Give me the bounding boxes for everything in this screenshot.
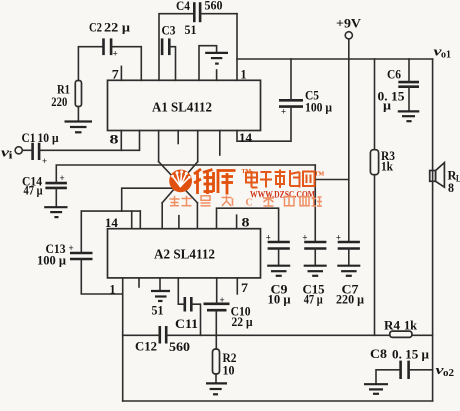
capacitor C15 47u [302,232,326,306]
speaker RL 8ohm [430,163,460,195]
pin 7 stub A2 [237,278,248,295]
watermark brand glyphs [194,169,236,195]
ground under C14 [44,207,67,217]
svg-text:220: 220 [51,95,67,109]
wire A2 pin1 down to bottom loop [110,278,123,401]
wire C6 top to rail [408,59,410,82]
svg-text:A1 SL4112: A1 SL4112 [152,100,212,115]
pin 7 stub A1 [112,66,122,81]
svg-text:+: + [113,48,118,58]
wire A1 output pin stub left [158,131,160,162]
wire R4 right to bus [412,334,433,336]
svg-text:47 μ: 47 μ [304,293,323,307]
wire C4 right to pin1 line [200,13,237,15]
watermark site name glyphs [246,170,315,189]
wire R3 top to rail [374,59,376,150]
wire crossover diagonal B [162,162,198,203]
svg-text:100 μ: 100 μ [37,254,66,268]
svg-text:μ: μ [383,99,391,113]
wire C8 left to ground [376,370,400,383]
svg-text:+: + [42,156,47,166]
capacitor C1 10u [22,131,59,166]
wire C5 top to rail [290,59,292,100]
svg-text:+: + [60,173,65,183]
resistor R2 10 [213,349,237,378]
svg-text:8: 8 [448,181,454,195]
wire R1 bottom [77,107,79,121]
svg-text:+: + [336,232,341,242]
capacitor C3 51 [162,23,197,55]
wire C14 bottom [55,188,57,207]
wire A1 output pin stub right [197,131,199,162]
wire A1 bottom pin stub x220 [219,131,221,156]
svg-text:o1: o1 [441,50,451,61]
resistor R1 [51,81,81,109]
wire bottom feedback loop [123,400,433,402]
ground near C4 [205,53,228,64]
wire C7 bottom [348,249,350,265]
wire +9V rail [237,58,433,60]
svg-text:1k: 1k [404,319,417,333]
pin 14 legs A2 [105,211,140,230]
svg-text:8: 8 [110,132,119,146]
svg-text:220 μ: 220 μ [336,293,364,307]
wire +9V down to C7 [348,39,350,242]
wire C4 left loop [159,14,194,81]
wire A1 bottom center pin stub [177,131,179,144]
wire pin14 bus A2 [81,210,140,212]
wire main feedback run left [123,334,160,336]
input terminal vi [1,145,22,162]
svg-text:C1: C1 [22,131,36,145]
ground under C8 left [364,384,388,394]
wire C5 bottom to pin 14 A1 [237,107,291,141]
svg-text:C2: C2 [89,20,102,34]
pin 1 wire A1 [237,14,247,82]
svg-text:7: 7 [112,68,119,82]
A2 bottom small stub [138,278,140,287]
A2 ground stub [159,278,161,290]
wire C10 bottom through main wire to R2 [215,311,217,350]
ground with 51 label [151,291,170,318]
svg-text:+: + [69,243,74,253]
capacitor C4 560 [176,0,223,22]
capacitor C12 560 [135,326,190,354]
svg-text:C12: C12 [135,340,157,354]
wire C13 bottom to A2 pin1 [81,259,122,294]
wire C13 top [80,211,82,253]
A2 top center stub [178,216,180,229]
ground under C9 [267,266,290,276]
pin 8 stub A1 [110,131,122,151]
svg-text:51: 51 [185,23,197,37]
svg-text:1: 1 [241,68,247,82]
resistor R3 1k [370,149,395,175]
ground under C7 [337,266,360,276]
wire right bus vo1 to bottom [432,59,434,401]
wire vi to C1 [23,149,33,151]
svg-text:7: 7 [241,281,248,295]
wire C10 top to A2 [216,278,218,304]
wire jumper C15 line to +9V line [315,179,349,181]
pin stub A1 top x216 [216,70,218,80]
svg-text:R4: R4 [384,319,401,333]
wire C8 right to bus [409,369,433,371]
capacitor C11 [175,297,198,331]
watermark slogan row [170,196,232,206]
wire C1 to A1 pin8 [39,131,139,151]
node vo2 label [436,362,455,379]
wire C15 bottom [314,249,316,265]
wire crossover leg into A2 left [161,203,163,229]
wire C2 right to A1 top pin [112,47,142,81]
svg-text:10 μ: 10 μ [268,293,291,307]
svg-text:1k: 1k [381,160,393,174]
wire C6 bottom [408,87,410,111]
svg-text:C: C [246,198,253,209]
op-amp U1 A1 SL4112 box [108,80,261,130]
watermark logo circle [169,170,192,193]
ground under C6 [398,111,420,121]
svg-text:100 μ: 100 μ [305,101,332,115]
svg-text:TM: TM [315,172,325,178]
wire ground branch on A1 top [199,46,217,81]
ground under C15 [304,266,327,276]
capacitor C5 100u [279,89,332,117]
svg-text:0. 15 μ: 0. 15 μ [392,348,429,362]
svg-text:560: 560 [169,340,190,354]
wire crossover diagonal A [159,162,198,203]
svg-text:C11: C11 [175,317,198,331]
wire C14 top to long rail wire [56,165,315,183]
wire main feedback run right [167,334,390,336]
svg-text:14: 14 [105,216,119,230]
op-amp U2 A2 SL4112 box [108,229,261,278]
svg-text:C4: C4 [176,0,191,13]
svg-text:1: 1 [110,283,116,297]
svg-text:10 μ: 10 μ [38,131,59,145]
svg-text:51: 51 [152,304,164,318]
wire C9 pickup from A2 top [217,208,279,242]
capacitor C6 0.15u [378,68,420,113]
capacitor C2 22u [89,20,130,58]
svg-text:+: + [281,107,286,117]
resistor R4 1k [384,319,417,338]
capacitor C14 47u [22,173,67,197]
wire C11 left to A2 [178,278,184,304]
capacitor C7 220u [336,232,364,306]
svg-text:+9V: +9V [336,17,361,31]
svg-text:o2: o2 [443,368,454,379]
capacitor C8 0.15u [370,347,429,379]
wire R3 bottom to main node [374,175,376,336]
pin 8 stub A2 [237,215,250,229]
svg-text:22 μ: 22 μ [232,315,253,329]
svg-text:560: 560 [205,0,223,13]
ground under R1 [65,122,93,133]
capacitor C10 22u [204,295,253,329]
svg-text:C8: C8 [370,347,387,361]
svg-text:L: L [456,174,460,184]
node vo1 label [434,44,452,61]
svg-text:i: i [9,151,13,162]
svg-text:I: I [231,198,235,209]
svg-text:+: + [266,232,271,242]
svg-text:10: 10 [223,364,235,378]
+9V supply terminal [336,17,361,39]
svg-text:+: + [220,295,225,305]
watermark slogan glyphs right [263,196,322,207]
wire crossover leg into A2 right [196,203,198,229]
svg-text:22 μ: 22 μ [104,21,130,35]
svg-text:C3: C3 [162,24,176,38]
wire C11 right down to main wire [192,304,201,335]
ground under R2 [206,383,227,394]
wire C15 branch down [314,165,316,242]
wire C9 bottom [278,249,280,265]
wire R1 top to C2 [78,47,103,81]
svg-text:A2 SL4112: A2 SL4112 [154,247,215,262]
wire R2 bottom [215,374,217,383]
wire feedback into crossover [122,188,178,211]
svg-text:C6: C6 [387,68,401,82]
svg-text:14: 14 [239,131,253,145]
wire C3 right leg to A1 top [170,47,176,81]
svg-text:+: + [302,232,307,242]
capacitor C9 10u [266,232,291,306]
svg-text:8: 8 [242,216,250,230]
svg-text:0. 15: 0. 15 [378,90,405,104]
capacitor C13 100u [37,242,93,268]
svg-text:47 μ: 47 μ [24,184,43,198]
